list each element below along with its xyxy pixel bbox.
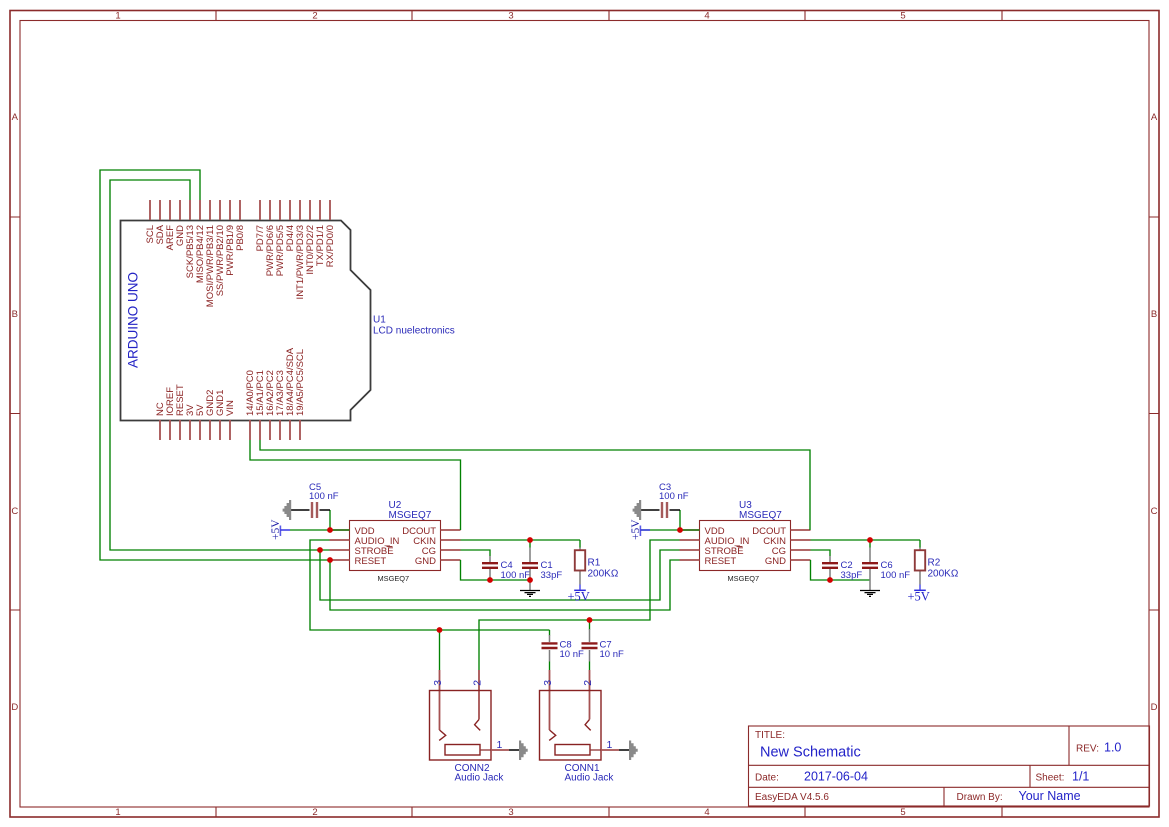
IC U3 MSGEQ7 box [680, 500, 811, 583]
CONN1 pin numbers [542, 680, 613, 751]
svg-text:2: 2 [582, 680, 594, 686]
CONN2 pin numbers [432, 680, 503, 751]
svg-text:+5V: +5V [270, 519, 282, 540]
junction CONN2 pin3 node [437, 627, 443, 633]
svg-text:+5V: +5V [630, 519, 642, 540]
wire U3 VDD net [640, 510, 700, 530]
svg-text:MSGEQ7: MSGEQ7 [389, 510, 432, 521]
svg-text:+5V: +5V [568, 590, 590, 604]
svg-text:TITLE:: TITLE: [755, 730, 785, 741]
wire C7 top stub [589, 620, 591, 630]
junction U3 CKIN node [867, 537, 873, 543]
ground earth below C6 [860, 580, 880, 596]
svg-text:1: 1 [607, 739, 613, 751]
power flag +5V at U3 VDD [630, 519, 650, 540]
svg-text:100 nF: 100 nF [309, 491, 339, 502]
svg-text:1/1: 1/1 [1072, 770, 1089, 784]
U1 refdes [373, 315, 455, 337]
svg-text:10 nF: 10 nF [600, 649, 624, 660]
Arduino U1 body [121, 221, 371, 421]
svg-text:D: D [11, 702, 18, 713]
svg-text:MSGEQ7: MSGEQ7 [728, 574, 760, 583]
svg-text:2: 2 [312, 11, 317, 22]
wire U3 CKIN net [811, 540, 921, 548]
resistor R2 [915, 548, 959, 585]
svg-text:Sheet:: Sheet: [1036, 773, 1065, 784]
connector CONN1 audio jack [550, 690, 590, 730]
svg-text:4: 4 [704, 807, 709, 818]
svg-text:100 nF: 100 nF [501, 570, 531, 581]
svg-text:R1: R1 [588, 558, 601, 569]
svg-text:1: 1 [115, 807, 120, 818]
svg-text:+5V: +5V [908, 590, 930, 604]
wire C8 top stub [549, 630, 551, 636]
junction C7 node [587, 617, 593, 623]
svg-text:1.0: 1.0 [1104, 741, 1121, 755]
svg-text:4: 4 [704, 11, 709, 22]
svg-text:C: C [11, 506, 18, 517]
svg-text:Drawn By:: Drawn By: [957, 792, 1003, 803]
svg-text:33pF: 33pF [841, 570, 863, 581]
CONN2 top pin stubs [440, 670, 480, 690]
title block [749, 726, 1150, 806]
wire U2 VDD net [290, 510, 350, 530]
junction U2 RESET node [327, 557, 333, 563]
ground chassis at C5 [283, 500, 292, 520]
ground chassis at CONN1 [629, 741, 638, 761]
CONN1 pin1 gnd lead [619, 749, 629, 751]
U1 bottom pin labels [155, 347, 306, 416]
wire U2 GND run [461, 560, 531, 580]
wire SCK/13 to STROBE bus [110, 180, 680, 600]
CONN2 pin1 gnd lead [509, 749, 519, 751]
junction U2 VDD node [327, 527, 333, 533]
U1 bottom pins [160, 420, 300, 440]
svg-text:A: A [12, 112, 19, 123]
wire CONN2 pin3 drop [439, 630, 441, 670]
CONN1 top pin stubs [550, 670, 590, 690]
svg-text:3: 3 [432, 680, 444, 686]
junction C4 gnd node [487, 577, 493, 583]
svg-text:B: B [1151, 309, 1157, 320]
junction U2 STROBE node [317, 547, 323, 553]
capacitor C1 [522, 548, 562, 581]
resistor R1 [575, 548, 619, 585]
svg-text:GND: GND [765, 556, 786, 567]
svg-text:D: D [1151, 702, 1158, 713]
svg-text:200KΩ: 200KΩ [928, 568, 959, 579]
svg-text:R2: R2 [928, 558, 941, 569]
capacitor C6 [862, 548, 910, 581]
CONN1 labels [565, 763, 615, 784]
svg-text:3: 3 [508, 11, 513, 22]
junction C2 gnd node [827, 577, 833, 583]
wire U2 CG to C4 [461, 550, 491, 556]
wire U2 CKIN net [461, 540, 581, 548]
svg-text:Your Name: Your Name [1019, 789, 1081, 803]
svg-text:5: 5 [900, 807, 905, 818]
svg-text:EasyEDA V4.5.6: EasyEDA V4.5.6 [755, 792, 829, 803]
svg-text:10 nF: 10 nF [560, 649, 584, 660]
wire U3 CG to C2 [811, 550, 831, 556]
capacitor C5 [291, 482, 339, 518]
svg-text:2: 2 [471, 680, 483, 686]
svg-text:200KΩ: 200KΩ [588, 568, 619, 579]
svg-text:3: 3 [508, 807, 513, 818]
svg-text:3: 3 [542, 680, 554, 686]
svg-text:RESET: RESET [705, 556, 737, 567]
svg-text:19/A5/PC5/SCL: 19/A5/PC5/SCL [295, 349, 306, 416]
junction U2 CKIN node [527, 537, 533, 543]
svg-text:1: 1 [115, 11, 120, 22]
capacitor C4 [482, 556, 530, 581]
capacitor C8 [542, 635, 584, 670]
junction U3 VDD node [677, 527, 683, 533]
svg-text:REV:: REV: [1076, 744, 1099, 755]
svg-text:ARDUINO UNO: ARDUINO UNO [126, 272, 141, 368]
wire MISO/12 to RESET bus [100, 170, 680, 610]
svg-text:100 nF: 100 nF [881, 570, 911, 581]
svg-text:LCD nuelectronics: LCD nuelectronics [373, 326, 455, 337]
svg-text:New Schematic: New Schematic [760, 745, 861, 761]
IC U2 MSGEQ7 box [330, 500, 461, 583]
U1 top pin labels [145, 224, 336, 307]
svg-text:VIN: VIN [225, 400, 236, 416]
svg-text:Date:: Date: [755, 773, 779, 784]
svg-text:PB0/8: PB0/8 [235, 225, 246, 251]
svg-text:A: A [1151, 112, 1158, 123]
svg-text:RESET: RESET [355, 556, 387, 567]
svg-text:2017-06-04: 2017-06-04 [804, 770, 868, 784]
wire A1 to U3 DCOUT [260, 440, 810, 530]
power flag +5V below R1 [568, 585, 590, 604]
svg-text:GND: GND [415, 556, 436, 567]
svg-text:U1: U1 [373, 315, 386, 326]
svg-text:MSGEQ7: MSGEQ7 [378, 574, 410, 583]
svg-text:MSGEQ7: MSGEQ7 [739, 510, 782, 521]
svg-text:Audio Jack: Audio Jack [455, 773, 505, 784]
ground earth below C1 [520, 580, 540, 596]
connector CONN2 audio jack [440, 690, 480, 730]
capacitor C2 [822, 556, 862, 581]
svg-text:2: 2 [312, 807, 317, 818]
svg-text:1: 1 [497, 739, 503, 751]
junction C1 gnd node [527, 577, 533, 583]
svg-text:100 nF: 100 nF [659, 491, 689, 502]
power flag +5V at U2 VDD [270, 519, 290, 540]
wire A0 to U2 DCOUT [250, 440, 461, 530]
svg-text:RX/PD0/0: RX/PD0/0 [325, 225, 336, 267]
CONN2 labels [455, 763, 505, 784]
capacitor C7 [582, 629, 624, 670]
wire U3 AUDIO_IN to jack bus [479, 540, 680, 670]
svg-text:33pF: 33pF [541, 570, 563, 581]
svg-text:C: C [1151, 506, 1158, 517]
svg-text:Audio Jack: Audio Jack [565, 773, 615, 784]
U1 top pins [150, 200, 330, 220]
wire U3 GND run [811, 560, 871, 580]
svg-text:5: 5 [900, 11, 905, 22]
svg-text:B: B [12, 309, 18, 320]
ground chassis at C3 [633, 500, 642, 520]
capacitor C3 [641, 482, 689, 518]
wire U2 AUDIO_IN to jack bus [310, 540, 550, 630]
ground chassis at CONN2 [519, 741, 528, 761]
power flag +5V below R2 [908, 585, 930, 604]
